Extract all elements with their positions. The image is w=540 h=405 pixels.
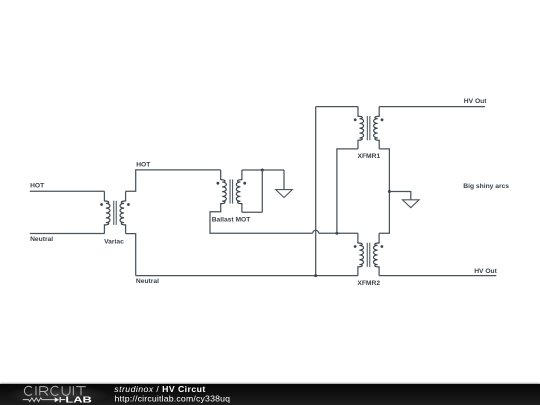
wire ground drop 1 xyxy=(283,170,285,190)
logo CIRCUIT letters xyxy=(24,386,85,395)
wire HV Out top xyxy=(379,106,485,108)
wire HOT feed xyxy=(30,190,105,192)
transformer Variac xyxy=(100,191,130,233)
wire XFMR1 primary bottom xyxy=(337,149,358,233)
ground 2 xyxy=(403,200,420,208)
transformer XFMR2 xyxy=(354,233,384,275)
node junction dot mid xyxy=(335,232,338,235)
wire Ballast primary bottom to long Neutral xyxy=(210,212,313,234)
node junction dot ground2 xyxy=(388,190,391,193)
wire ground branch 2 xyxy=(389,192,410,200)
wire long Neutral right of hop xyxy=(319,232,358,234)
wire Neutral run to XFMR2 xyxy=(136,275,358,277)
wire XFMR1 top left xyxy=(316,106,358,108)
svg-text:LAB: LAB xyxy=(65,395,92,404)
wire XFMR1 secondary bottom to XFMR2 xyxy=(379,149,389,233)
ground 1 xyxy=(276,190,293,198)
logo waveform resistor zigzag xyxy=(23,398,55,402)
svg-text:http://circuitlab.com/cy338uq: http://circuitlab.com/cy338uq xyxy=(115,393,231,403)
node junction dot Neutral xyxy=(314,274,317,277)
wire hop over vertical xyxy=(313,230,319,233)
wire Variac secondary bottom to Neutral run xyxy=(126,234,136,276)
node junction dot Ballast top xyxy=(261,169,264,172)
logo glow xyxy=(6,384,110,405)
footer bar xyxy=(0,384,540,405)
wire HV Out bottom xyxy=(379,275,496,277)
wire Ballast secondary bottom xyxy=(242,211,262,213)
transformer XFMR1 xyxy=(354,107,384,149)
transformer Ballast MOT xyxy=(217,170,247,212)
wire tall vertical xyxy=(315,107,317,276)
wire Neutral feed xyxy=(30,233,105,235)
wire Variac secondary top to HOT node xyxy=(126,170,221,191)
logo diode xyxy=(55,397,59,402)
wire Ballast secondary top xyxy=(242,169,284,171)
wire junction down xyxy=(261,170,263,212)
